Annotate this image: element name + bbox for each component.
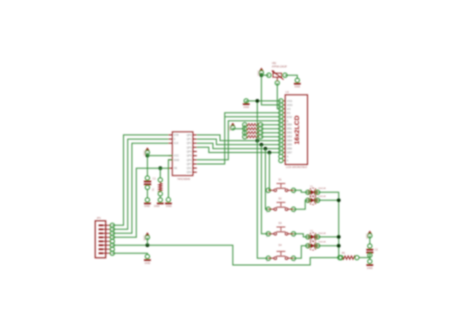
svg-text:VCC: VCC xyxy=(143,150,147,156)
svg-text:QP6: QP6 xyxy=(187,158,193,162)
svg-text:OE: OE xyxy=(174,166,178,170)
svg-text:GND: GND xyxy=(145,261,151,265)
svg-text:GND: GND xyxy=(294,85,300,89)
svg-text:ATP08-13K2P: ATP08-13K2P xyxy=(272,66,288,69)
svg-text:VCC: VCC xyxy=(257,70,261,76)
svg-text:GND: GND xyxy=(174,158,180,162)
svg-text:QS1: QS1 xyxy=(187,166,193,170)
svg-text:QP0: QP0 xyxy=(187,133,193,137)
svg-text:QP4: QP4 xyxy=(187,150,193,154)
svg-text:QS2: QS2 xyxy=(187,170,193,174)
svg-text:1N4148: 1N4148 xyxy=(318,233,326,235)
svg-text:1: 1 xyxy=(266,261,267,263)
svg-text:QP1: QP1 xyxy=(187,137,193,141)
svg-text:1N4148: 1N4148 xyxy=(318,242,326,244)
svg-text:1N4148: 1N4148 xyxy=(318,188,326,190)
svg-text:1: 1 xyxy=(266,193,267,195)
svg-text:U1: U1 xyxy=(286,90,290,94)
svg-text:S1: S1 xyxy=(278,178,282,182)
svg-text:S3: S3 xyxy=(278,221,282,225)
svg-text:GND: GND xyxy=(367,266,373,270)
svg-text:2: 2 xyxy=(294,261,295,263)
svg-text:D: D xyxy=(174,137,176,141)
svg-text:16x2LCD: 16x2LCD xyxy=(294,115,301,144)
svg-text:LCD-16X2NOSILK: LCD-16X2NOSILK xyxy=(286,165,308,169)
svg-text:VCC: VCC xyxy=(143,235,147,241)
svg-text:S2: S2 xyxy=(278,197,282,201)
svg-text:1: 1 xyxy=(266,212,267,214)
svg-text:QP3: QP3 xyxy=(187,145,193,149)
svg-text:VCC: VCC xyxy=(365,233,369,239)
svg-text:1N4148: 1N4148 xyxy=(318,196,326,198)
svg-text:GND: GND xyxy=(144,204,150,208)
svg-text:JP1: JP1 xyxy=(97,216,102,220)
svg-text:QP5: QP5 xyxy=(187,154,193,158)
svg-text:2: 2 xyxy=(294,236,295,238)
svg-text:K: K xyxy=(287,159,289,163)
svg-text:STR: STR xyxy=(174,133,179,137)
svg-text:1: 1 xyxy=(266,236,267,238)
svg-text:VCC: VCC xyxy=(174,154,180,158)
svg-text:S4: S4 xyxy=(278,243,282,247)
svg-text:QP2: QP2 xyxy=(187,141,193,145)
svg-text:GND: GND xyxy=(166,204,172,208)
svg-text:2: 2 xyxy=(294,212,295,214)
svg-text:GND: GND xyxy=(243,105,249,109)
svg-text:GND: GND xyxy=(154,204,160,208)
svg-text:QP7: QP7 xyxy=(187,162,193,166)
svg-text:CLK: CLK xyxy=(174,141,179,145)
svg-text:2: 2 xyxy=(294,193,295,195)
svg-text:74HC4094N: 74HC4094N xyxy=(177,178,190,181)
